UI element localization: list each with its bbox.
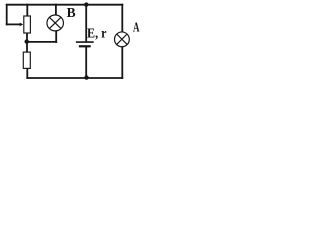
node: dot battery/bottom border [84, 75, 88, 79]
battery: long positive plate [76, 41, 94, 43]
node: junction dot at resistor column [25, 39, 29, 43]
node: dot battery/top border [84, 2, 88, 6]
svg-text:B: B [67, 5, 76, 20]
wire: top border [7, 4, 123, 6]
wire: right border below lamp A [121, 47, 123, 78]
wire: left border segment [6, 5, 8, 25]
wire: slider arrow shaft [7, 23, 21, 25]
wire: bottom border [27, 77, 122, 79]
wire: lamp B bottom lead [55, 31, 57, 42]
wire: lamp B top lead [55, 5, 57, 15]
battery: short thick negative plate [79, 45, 91, 47]
lamp A (circle with X) [115, 32, 130, 47]
wire: R1 bottom lead through node to R2 [26, 33, 28, 52]
wire: battery bottom lead [85, 47, 87, 78]
wire: right border above lamp A [121, 5, 123, 31]
wire: R1 top lead [26, 5, 28, 16]
svg-text:A: A [133, 21, 140, 35]
wire: node to lamp B bottom (horizontal) [27, 41, 57, 43]
resistor R2 (lower) [23, 52, 30, 68]
wire: battery top lead [85, 5, 87, 42]
lamp B (circle with X) [47, 15, 64, 31]
wire: R2 bottom lead [26, 69, 28, 78]
resistor R1 (upper, rheostat element) [24, 16, 31, 33]
potentiometer slider arrowhead [20, 23, 24, 27]
svg-text:E, r: E, r [87, 26, 107, 41]
